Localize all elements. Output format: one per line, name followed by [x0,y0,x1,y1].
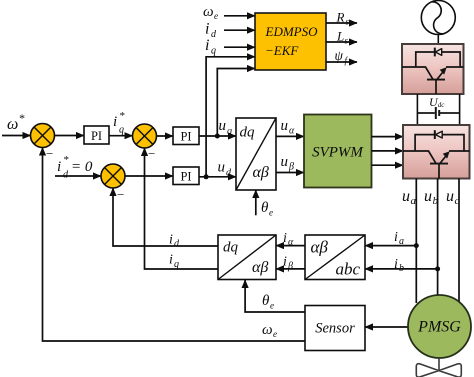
wire theta_e from Sensor to feedback dq block [245,280,305,312]
wire ud riser to EDMPSO input 4 [206,57,255,177]
svg-text:dc: dc [438,101,446,109]
IGBT (rectifier) [402,67,464,94]
diode (inverter) [415,130,464,151]
svg-text:PI: PI [180,170,191,184]
svg-text:αβ: αβ [311,238,329,257]
svg-text:−: − [46,146,53,161]
svg-text:−EKF: −EKF [265,43,299,58]
wire i_q feedback to S2 [145,148,219,269]
node uq junction [215,134,220,139]
wire PI1 to S2 [109,135,133,137]
AC source [421,1,455,35]
svg-text:θ: θ [261,200,269,216]
svg-text:β: β [287,261,293,272]
svg-text:i: i [205,37,209,54]
svg-text:i: i [394,230,398,245]
svg-text:q: q [174,259,179,270]
svg-text:θ: θ [262,293,270,309]
wire AC source to rectifier [437,35,439,45]
summing junction S2 [133,124,157,148]
svg-text:q: q [119,125,124,136]
svg-text:αβ: αβ [252,259,268,276]
wire i_alpha to feedback dq block [276,245,305,247]
block rectifier [402,44,464,94]
svg-text:i: i [394,257,398,272]
svg-text:*: * [19,111,25,125]
svg-text:ω: ω [262,322,273,338]
wire id to EDMPSO input 2 [224,29,255,31]
svg-text:dq: dq [240,125,256,141]
block PI3 [173,167,199,185]
summing junction S1 [31,124,55,148]
svg-text:= 0: = 0 [71,159,93,175]
wire PMSG shaft [438,358,440,371]
svg-text:u: u [281,154,289,170]
block PI2 [173,127,199,145]
svg-text:d: d [63,170,69,181]
svg-text:s: s [345,36,349,46]
wire SVPWM to inverter gate 3 [372,164,404,166]
node ud junction [204,174,209,179]
svg-text:e: e [214,11,218,21]
wire PI3 to dq block (ud) [199,176,236,178]
svg-text:i: i [57,159,61,175]
svg-text:*: * [119,110,125,122]
svg-text:i: i [169,233,173,248]
svg-text:i: i [113,114,117,130]
block SVPWM [304,115,372,188]
wire S3 to PI3 [125,175,173,177]
block dq/alphabeta forward transform [236,118,276,190]
wire i_d feedback to S3 [113,188,218,246]
wire omega_e to EDMPSO input 1 [224,15,255,17]
wire S1 to PI1 [55,135,85,137]
svg-text:d: d [211,29,217,40]
svg-text:u: u [424,188,432,205]
svg-text:u: u [446,188,454,205]
svg-text:q: q [211,46,216,57]
wire u_b phase line [437,179,439,296]
svg-text:u: u [218,160,226,176]
svg-text:b: b [399,263,404,274]
svg-text:s: s [346,17,350,27]
svg-text:abc: abc [336,260,361,279]
wire omega_e feedback to S1 [43,148,306,342]
capacitor Udc [417,107,459,119]
svg-text:u: u [402,188,410,205]
wire uq riser to EDMPSO input 5 [217,69,255,137]
svg-text:α: α [288,237,294,248]
svg-text:ω: ω [203,4,214,20]
svg-text:e: e [270,301,274,311]
wire SVPWM to inverter gate 2 [372,150,404,152]
svg-text:PMSG: PMSG [417,319,461,336]
wire iq to EDMPSO input 3 [224,46,255,48]
block inverter [403,125,470,179]
IGBT (inverter) [403,151,470,179]
svg-text:R: R [336,10,345,25]
PMSG generator [408,295,471,358]
svg-text:−: − [117,187,124,202]
wire DC link left [416,94,418,125]
wire psi_f output [326,61,357,63]
wire Ls output [326,41,357,43]
wire Rs output [326,22,357,24]
block PI1 [84,126,109,144]
svg-text:PI: PI [91,129,102,143]
svg-text:α: α [289,126,295,137]
wire i_beta to feedback dq block [276,268,305,270]
svg-text:Sensor: Sensor [315,321,355,337]
svg-text:*: * [63,154,69,166]
svg-text:αβ: αβ [253,164,269,181]
svg-text:−: − [148,146,155,161]
block EDMPSO-EKF [255,13,326,70]
svg-text:L: L [336,29,344,44]
svg-text:SVPWM: SVPWM [312,145,364,161]
svg-text:a: a [399,236,404,247]
node i_b tap [435,266,440,271]
summing junction S3 [101,164,125,188]
wire omega* input [2,135,31,137]
block alphabeta/abc transform [305,235,365,280]
svg-text:i: i [205,21,209,38]
svg-text:i: i [169,253,173,268]
wire i_a to abc block [365,245,416,247]
svg-text:u: u [219,118,227,134]
svg-text:e: e [269,208,273,218]
wire PI2 to dq block (uq) [199,135,236,137]
svg-text:d: d [174,239,180,250]
svg-text:a: a [411,195,417,207]
fan propeller [416,364,461,377]
svg-text:ψ: ψ [335,48,344,63]
svg-text:PI: PI [180,130,191,144]
svg-text:EDMPSO: EDMPSO [265,24,319,39]
wire PMSG to Sensor [365,326,408,328]
diode (rectifier) [416,48,460,67]
block feedback dq/alphabeta transform [218,235,276,280]
svg-text:c: c [455,195,460,207]
svg-text:ω: ω [7,116,18,133]
svg-text:i: i [283,255,287,270]
svg-text:β: β [288,162,294,173]
wire u_beta to SVPWM [276,172,304,174]
wire theta_e stub into forward dq block [255,190,257,215]
block Sensor [305,306,365,351]
wire S2 to PI2 [157,135,174,137]
svg-text:u: u [281,118,289,134]
wire u_a phase line [415,179,417,304]
wire u_alpha to SVPWM [276,135,304,137]
svg-text:f: f [345,56,349,66]
wire u_c phase line [458,179,460,302]
svg-text:e: e [273,329,277,339]
wire id* to S3 [55,175,101,177]
wire SVPWM to inverter gate 1 [372,136,404,138]
svg-text:q: q [227,126,232,137]
wire DC link right [459,94,461,125]
node i_a tap [414,243,419,248]
wire i_b to abc block [365,268,438,270]
svg-text:i: i [283,231,287,246]
svg-text:dq: dq [223,240,239,256]
svg-text:b: b [433,195,439,207]
